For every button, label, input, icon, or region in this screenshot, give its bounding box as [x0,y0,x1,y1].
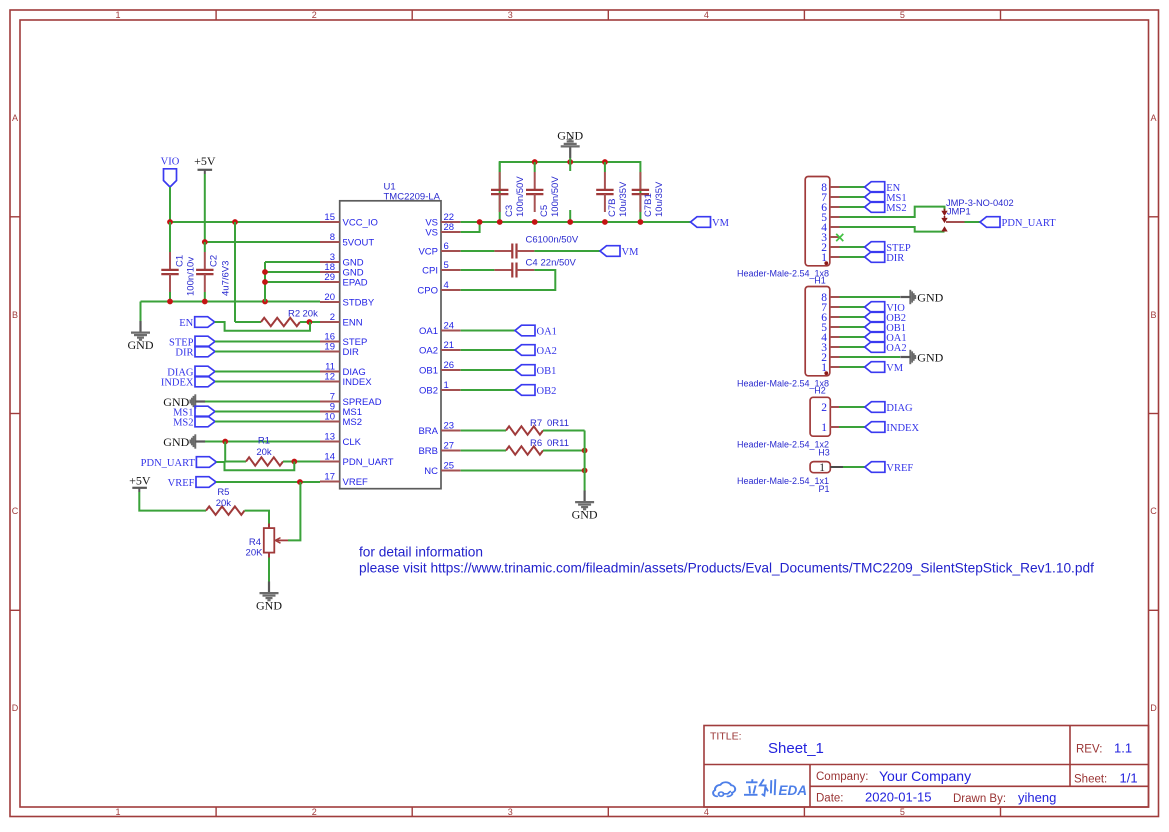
svg-text:100n/10v: 100n/10v [186,257,197,296]
U1 pin 7 SPREAD [320,392,382,409]
wire H1.4 to JMP1 pad3 [840,227,945,232]
svg-text:4: 4 [444,280,449,291]
H2 pin 6 [821,312,839,324]
svg-text:+5V: +5V [194,154,216,168]
net flag MS2 right [865,202,907,214]
wire R4 bottom [268,558,270,588]
svg-text:100n/50V: 100n/50V [515,176,526,217]
junction C1/GND rail [167,299,173,305]
wire H1.1 to DIR [840,256,865,258]
wire H2.3 to OA2 [840,346,865,348]
wire OA1 [461,330,515,332]
svg-text:20k: 20k [256,447,272,458]
svg-text:EDA: EDA [779,783,808,798]
svg-text:OA1: OA1 [537,327,557,338]
wire VS rail [461,221,691,223]
svg-text:12: 12 [324,372,335,383]
svg-text:please visit https://www.trina: please visit https://www.trinamic.com/fi… [359,561,1094,576]
svg-text:GND: GND [256,599,282,613]
wire DIAG [215,371,320,373]
junction C5 bottom [532,219,538,225]
wire VCC_IO to R2 vertical [234,222,236,322]
R6 value 0R11 [530,438,569,449]
H3 pin 1 [821,422,839,434]
net flag INDEX right [865,422,920,434]
junction C7B bottom [602,219,608,225]
svg-text:VREF: VREF [343,477,369,488]
wire GND pin18 [265,271,320,273]
svg-text:20: 20 [324,292,335,303]
title block [704,726,1149,808]
C5 value 100n/50V [539,176,561,217]
C3 value 100n/50V [504,176,526,217]
H2 pin 3 [821,342,839,354]
H2 pin 2 [821,352,839,364]
wire GND rail to STDBY [141,301,321,303]
H3 pin 2 [821,402,839,414]
H1 part label [737,269,829,286]
svg-text:GND: GND [917,351,943,365]
svg-text:OA2: OA2 [886,343,906,354]
wire C1 bottom [169,292,171,302]
net flag OB1 [515,365,556,377]
U1 pin 15 VCC_IO [320,212,378,229]
svg-text:20k: 20k [216,498,232,509]
svg-text:BRB: BRB [418,446,438,457]
svg-text:4: 4 [704,807,709,817]
H2 pin 8 [821,292,839,304]
svg-text:INDEX: INDEX [161,378,194,389]
U1 pin 23 BRA [418,421,460,438]
svg-text:OA1: OA1 [419,326,438,337]
svg-text:C3: C3 [504,205,515,217]
wire JMP1 to PDN_UART [965,221,981,223]
svg-text:OA2: OA2 [537,346,557,357]
svg-text:Header-Male-2.54_1x1: Header-Male-2.54_1x1 [737,476,829,486]
potentiometer R4 [264,524,288,558]
svg-text:27: 27 [444,441,455,452]
U1 pin 18 GND [320,262,364,279]
wire C4 to CPO [461,270,556,290]
svg-text:C7B1: C7B1 [643,193,654,217]
net flag MS2 [173,416,215,428]
net flag OA1 [515,325,557,337]
wire MS2 [215,421,320,423]
H3 part label [737,440,830,458]
U1 pin 10 MS2 [320,412,362,429]
svg-text:for detail information: for detail information [359,545,483,560]
wire cap-bank top rail [500,162,641,222]
ground flag H2.8 [900,290,943,305]
wire VCC_IO horizontal [170,221,320,223]
ground flag H2.2 [900,350,943,365]
junction C7B1 bottom [638,219,644,225]
wire NC to gnd vertical [461,470,585,472]
wire GND rail drop [140,302,142,323]
junction GND stem top rail [567,159,573,165]
R5 value 20k [216,487,232,509]
svg-text:4u7/6V3: 4u7/6V3 [221,261,232,296]
junction C2/GND rail [202,299,208,305]
wire BRA to R7 [461,430,506,432]
U1 pin 22 VS [425,212,460,229]
U1 pin 8 5VOUT [320,232,374,249]
H1 pin 6 [821,202,839,214]
svg-text:15: 15 [324,212,335,223]
net flag OA1 right [865,332,907,344]
wire STEP [215,341,320,343]
svg-text:C: C [1150,506,1157,516]
wire +5V vertical [204,174,206,242]
U1 pin 3 GND [320,252,364,269]
net flag STEP [169,336,215,348]
wire H3.1 to INDEX [839,426,865,428]
sheet 1/1 [1074,771,1138,786]
svg-text:19: 19 [324,342,335,353]
svg-text:R7: R7 [530,418,542,429]
svg-text:EN: EN [179,318,193,329]
svg-text:CPI: CPI [422,266,438,277]
junction GND-pins vertical/GND rail [262,299,268,305]
wire H2.7 to VIO [840,306,865,308]
wire VREF [216,481,320,483]
H1 pin 4 [821,222,839,234]
svg-text:1/1: 1/1 [1120,771,1138,786]
H2 pin 5 [821,322,839,334]
note text [359,545,1094,576]
svg-text:ENN: ENN [343,318,363,329]
junction C5 top [532,159,538,165]
svg-text:5: 5 [900,10,905,20]
R7 value 0R11 [530,418,569,429]
net flag EN right [865,182,901,194]
net flag STEP right [865,242,911,254]
ground GND under R4 [256,582,282,613]
svg-text:8: 8 [330,232,335,243]
svg-text:26: 26 [444,360,455,371]
svg-text:STDBY: STDBY [343,298,375,309]
net flag EN [179,317,215,329]
svg-text:10u/35V: 10u/35V [654,181,665,217]
U1 pin 1 OB2 [419,380,461,397]
U1 pin 27 BRB [418,441,460,458]
net flag OB2 [515,385,556,397]
svg-text:MS2: MS2 [343,417,363,428]
C2 value label [209,255,232,296]
svg-text:VCP: VCP [418,247,438,258]
wire DIR [215,351,320,353]
svg-text:1: 1 [444,380,449,391]
net flag OB1 right [865,322,906,334]
svg-text:OB1: OB1 [419,366,438,377]
resistor R5 [206,506,245,514]
svg-text:10u/35V: 10u/35V [618,181,629,217]
wire BRB to R6 [461,450,506,452]
wire CLK branch down [224,442,226,462]
svg-text:5: 5 [900,807,905,817]
wire P1.1 to VREF [843,466,865,468]
svg-text:A: A [1150,113,1156,123]
capacitor C7B [596,172,613,212]
junction ENN node [307,319,313,325]
svg-text:1.1: 1.1 [1114,741,1132,756]
svg-text:C5: C5 [539,205,550,217]
svg-text:R6: R6 [530,438,542,449]
svg-text:VM: VM [622,247,640,258]
svg-text:4: 4 [704,10,709,20]
wire C2 top [204,242,206,252]
svg-text:PDN_UART: PDN_UART [1002,218,1057,229]
svg-text:VM: VM [886,363,904,374]
svg-text:PDN_UART: PDN_UART [343,457,394,468]
wire PDN_UART jog [216,462,294,471]
svg-text:1: 1 [115,10,120,20]
svg-text:+5V: +5V [129,474,151,488]
U1 pin 11 DIAG [320,362,366,379]
power flag +5V lower [129,474,151,493]
wire sense gnd vertical [584,431,586,492]
H1 pin 3 [821,232,839,244]
rev 1.1 [1076,741,1132,756]
svg-text:Your Company: Your Company [879,768,971,784]
svg-text:P1: P1 [818,484,829,494]
svg-text:Sheet_1: Sheet_1 [768,740,824,757]
wire SPREAD [205,401,320,403]
net flag PDN_UART [141,457,217,469]
wire H2.1 to VM [840,366,865,368]
svg-text:VS: VS [425,228,438,239]
H2 pin 7 [821,302,839,314]
svg-text:C7B: C7B [607,199,618,217]
svg-text:3: 3 [508,10,513,20]
capacitor C5 [526,172,543,212]
wire 5VOUT horizontal [205,241,320,243]
U1 pin 5 CPI [422,260,461,277]
svg-text:VM: VM [712,218,730,229]
junction GND stem bottom rail [567,219,573,225]
svg-text:2: 2 [330,312,335,323]
svg-text:Sheet:: Sheet: [1074,774,1107,786]
wire R2 to ENN [300,321,320,323]
U1 pin 24 OA1 [419,321,461,338]
wire GND pin3 [265,261,320,263]
wire R1 left lead [225,461,246,463]
wire +5V to R5 [139,492,206,511]
net flag DIR right [865,252,905,264]
capacitor C3 [491,172,508,212]
net flag DIAG right [865,402,913,414]
svg-text:14: 14 [324,452,335,463]
U1 pin 16 STEP [320,332,367,349]
svg-text:TITLE:: TITLE: [710,731,742,743]
svg-text:1: 1 [115,807,120,817]
svg-text:21: 21 [444,340,455,351]
company Your Company [816,768,971,784]
svg-text:25: 25 [444,461,455,472]
junction EPAD pin29 [262,279,268,285]
svg-text:29: 29 [324,272,335,283]
JMP1 labels [946,198,1014,217]
svg-text:D: D [1150,703,1157,713]
svg-text:INDEX: INDEX [343,377,373,388]
op-amp U1 body TMC2209-LA [340,201,441,489]
wire VS28 jog [461,222,480,232]
svg-text:D: D [12,703,19,713]
U1 pin 17 VREF [320,472,368,489]
U1 pin 25 NC [424,461,460,478]
header P1 body [810,462,830,473]
net flag OA2 right [865,342,907,354]
svg-text:Date:: Date: [816,793,844,805]
U1 pin 19 DIR [320,342,359,359]
svg-text:DIR: DIR [175,348,193,359]
wire H1.6 to MS2 [840,206,865,208]
net flag OA2 [515,345,557,357]
junction VCC_IO to R2 branch [232,219,238,225]
svg-text:2: 2 [312,10,317,20]
wire MS1 [215,411,320,413]
wire R4 wiper to VREF [288,482,300,540]
svg-text:0R11: 0R11 [547,418,569,429]
net flag VM mid [600,246,639,258]
capacitor C7B1 [632,172,649,212]
H1 pin 1 [821,252,839,264]
svg-text:22n/50V: 22n/50V [541,257,577,268]
junction C3 bottom [497,219,503,225]
wire OB1 [461,369,515,371]
svg-text:Company:: Company: [816,771,868,783]
net flag OB2 right [865,312,906,324]
wire R6 to gnd vertical [543,450,585,452]
svg-text:CLK: CLK [343,437,362,448]
junction VREF node [297,479,303,485]
capacitor C4 [494,263,534,278]
wire EN jog to ENN [215,322,310,331]
svg-text:INDEX: INDEX [886,423,919,434]
capacitor C6 [494,244,534,259]
resistor R6 [506,446,543,454]
svg-text:yiheng: yiheng [1018,790,1056,805]
wire R7 to gnd vertical [543,430,585,432]
wire C7B top stub [604,162,606,172]
U1 pin 12 INDEX [320,372,372,389]
wire H1.7 to MS1 [840,196,865,198]
svg-text:100n/50V: 100n/50V [538,234,579,245]
wire H2.8 to GND [840,296,901,298]
U1 pin 4 CPO [417,280,460,297]
wire INDEX [215,381,320,383]
wire H1.8 to EN [840,186,865,188]
ground GND top [557,128,583,158]
svg-text:B: B [12,310,18,320]
svg-text:R1: R1 [258,436,270,447]
U1 reference labels [384,182,441,203]
svg-text:CPO: CPO [417,286,438,297]
svg-text:VREF: VREF [886,463,913,474]
svg-text:3: 3 [508,807,513,817]
wire OB2 [461,389,515,391]
svg-text:MS2: MS2 [173,418,193,429]
svg-text:TMC2209-LA: TMC2209-LA [384,191,441,202]
U1 pin 21 OA2 [419,340,461,357]
svg-text:13: 13 [324,432,335,443]
header H3 body [810,397,830,436]
svg-text:OB2: OB2 [419,386,438,397]
junction VS28/rail [477,219,483,225]
wire C5 top stub [534,162,536,172]
wire CPI to C4 [461,269,495,271]
net flag VIO right [865,302,906,314]
U1 pin 28 VS [425,222,460,239]
net flag VM right [865,362,904,374]
wire C2 bottom [204,292,206,302]
wire VIO to VCC_IO rail [169,187,171,222]
svg-text:5: 5 [444,260,449,271]
wire H3.2 to DIAG [839,406,865,408]
resistor R2 [261,318,300,326]
net flag VREF [168,477,216,489]
date and drawn by [816,790,1056,806]
net flag VIO [161,157,180,188]
wire H2.4 to OA1 [840,336,865,338]
wire H1.5 to JMP1 pad1 [840,207,945,217]
junction VIO/VCC_IO [167,219,173,225]
svg-text:GND: GND [917,291,943,305]
svg-text:NC: NC [424,466,438,477]
no-connect flag H1.3 [836,234,843,241]
H2 pin 4 [821,332,839,344]
svg-text:GND: GND [557,128,583,142]
svg-text:17: 17 [324,472,335,483]
wire VCP to C6 [461,250,495,252]
net flag VREF right [865,462,914,474]
H1 pin 8 [821,182,839,194]
R2 value 20k [288,309,318,320]
svg-text:DIAG: DIAG [886,403,913,414]
H1 pin 7 [821,192,839,204]
capacitor C2 [196,252,213,292]
svg-text:EPAD: EPAD [343,278,368,289]
junction GND pin18 [262,269,268,275]
svg-text:H3: H3 [818,447,830,457]
svg-text:C1: C1 [175,255,186,267]
wire R5 to R4 [245,511,270,524]
wire C1 top [169,222,171,252]
C1 value label [175,255,197,296]
U1 pin 20 STDBY [320,292,375,309]
wire H2.6 to OB2 [840,316,865,318]
svg-text:R5: R5 [217,487,229,498]
svg-text:1: 1 [819,462,825,474]
capacitor C1 [161,252,178,292]
wire R2 left lead [235,321,261,323]
resistor R1 [246,457,283,465]
junction CLK branch [222,439,228,445]
svg-text:B: B [1150,310,1156,320]
svg-text:OB2: OB2 [537,386,557,397]
P1 pin 1 [819,462,843,474]
resistor R7 [506,426,543,434]
wire GND stem lower segment b [569,210,571,222]
U1 pin 26 OB1 [419,360,461,377]
U1 pin 13 CLK [320,432,362,449]
svg-text:Header-Male-2.54_1x2: Header-Male-2.54_1x2 [737,440,829,450]
H1 pin 2 [821,242,839,254]
svg-text:H1: H1 [814,275,826,285]
net flag DIR [175,346,215,358]
junction R6 node [582,448,588,454]
wire GND pins vertical [264,262,266,302]
